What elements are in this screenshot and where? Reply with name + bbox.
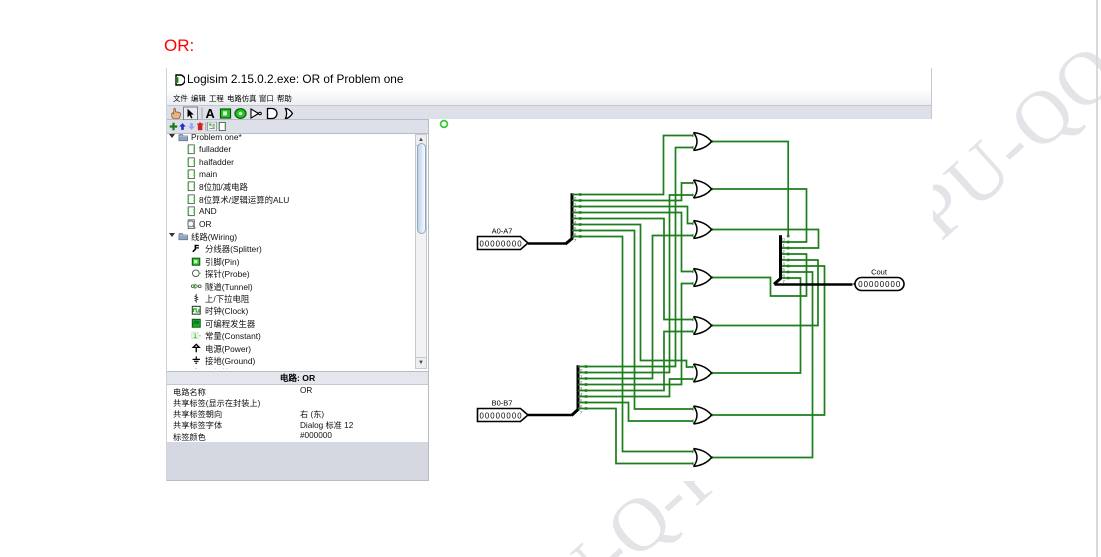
OR gate U8	[694, 449, 712, 467]
svg-text:7: 7	[574, 238, 577, 244]
page right border line	[1096, 0, 1098, 557]
output pin Cout	[853, 278, 904, 291]
svg-text:B0-B7: B0-B7	[492, 399, 513, 408]
svg-text:5: 5	[782, 267, 785, 273]
splitter SP3 (combiner to Cout)	[774, 235, 785, 285]
OR gate U4	[694, 269, 712, 287]
splitter SP2 B0-B7	[572, 365, 583, 416]
svg-text:7: 7	[580, 410, 583, 416]
svg-text:3: 3	[782, 255, 785, 261]
circuit canvas	[428, 119, 933, 481]
wire OR gate U7 output to splitter SP3 bit 5	[710, 265, 824, 417]
wire OR gate U5 output to splitter SP3 bit 4	[710, 259, 818, 327]
wire splitter SP3 to Cout pin (8-bit bus)	[775, 283, 853, 286]
OR gate U7	[694, 406, 712, 424]
Logisim application window	[166, 68, 932, 481]
OR gate U6	[694, 364, 712, 382]
svg-text:6: 6	[782, 273, 785, 279]
input pin A0-A7	[478, 237, 529, 250]
wire B4 to OR gate U5 bottom input	[578, 330, 695, 392]
window title bar	[167, 68, 931, 89]
wire A2 to OR gate U3 top input	[572, 205, 695, 225]
svg-text:2: 2	[782, 249, 785, 255]
svg-text:A0-A7: A0-A7	[492, 227, 513, 236]
svg-text:0: 0	[782, 237, 785, 243]
explorer tree panel	[167, 134, 428, 369]
wire B1 to OR gate U2 bottom input	[578, 194, 695, 374]
svg-text:00000000: 00000000	[480, 240, 523, 249]
OR gate U1	[694, 133, 712, 151]
svg-text:00000000: 00000000	[858, 280, 901, 289]
wire A3 to OR gate U4 top input	[572, 211, 695, 273]
wire A1 to OR gate U2 top input	[572, 182, 695, 202]
wire OR gate U4 output to splitter SP3 bit 3	[710, 253, 806, 296]
explorer toolbar	[167, 120, 428, 134]
OR gate U5	[694, 317, 712, 335]
wire OR gate U3 output to splitter SP3 bit 2	[710, 228, 818, 249]
wire B7 to OR gate U8 bottom input	[578, 407, 695, 465]
wire OR gate U8 output to splitter SP3 bit 6	[710, 271, 812, 459]
attribute table	[167, 385, 428, 442]
canvas origin marker (green circle)	[441, 121, 448, 128]
wire B5 to OR gate U6 bottom input	[578, 378, 695, 398]
OR gate U3	[694, 221, 712, 239]
wire B2 to OR gate U3 bottom input	[578, 234, 695, 380]
splitter SP1 A0-A7	[566, 193, 577, 244]
wire B6 to OR gate U7 bottom input	[578, 401, 695, 422]
input pin B0-B7	[478, 409, 529, 422]
svg-text:00000000: 00000000	[480, 412, 523, 421]
wire OR gate U6 output to splitter SP3 bit 7	[710, 277, 800, 375]
attribute panel filler	[167, 442, 428, 481]
svg-text:4: 4	[782, 261, 785, 267]
svg-text:Cout: Cout	[871, 268, 888, 277]
wire B0 to OR gate U1 bottom input	[578, 146, 695, 368]
heading OR:	[164, 36, 194, 56]
wire A5 to OR gate U6 top input	[572, 223, 695, 368]
wire A pin to splitter (8-bit bus)	[528, 242, 567, 245]
wire A0 to OR gate U1 top input	[572, 134, 695, 196]
wire B3 to OR gate U4 bottom input	[578, 282, 695, 386]
tree scrollbar	[415, 134, 427, 369]
wire OR gate U1 output to splitter SP3 bit 0	[710, 140, 789, 237]
wire A6 to OR gate U7 top input	[572, 229, 695, 410]
wire B pin to splitter (8-bit bus)	[528, 414, 572, 417]
OR gate U2	[694, 180, 712, 198]
svg-text:1: 1	[782, 243, 785, 249]
main toolbar	[167, 105, 931, 120]
menu bar	[167, 89, 931, 105]
wire OR gate U2 output to splitter SP3 bit 1	[710, 188, 806, 244]
attribute panel header 电路: OR	[167, 371, 428, 385]
wire A4 to OR gate U5 top input	[572, 217, 695, 321]
wire A7 to OR gate U8 top input	[572, 235, 695, 453]
